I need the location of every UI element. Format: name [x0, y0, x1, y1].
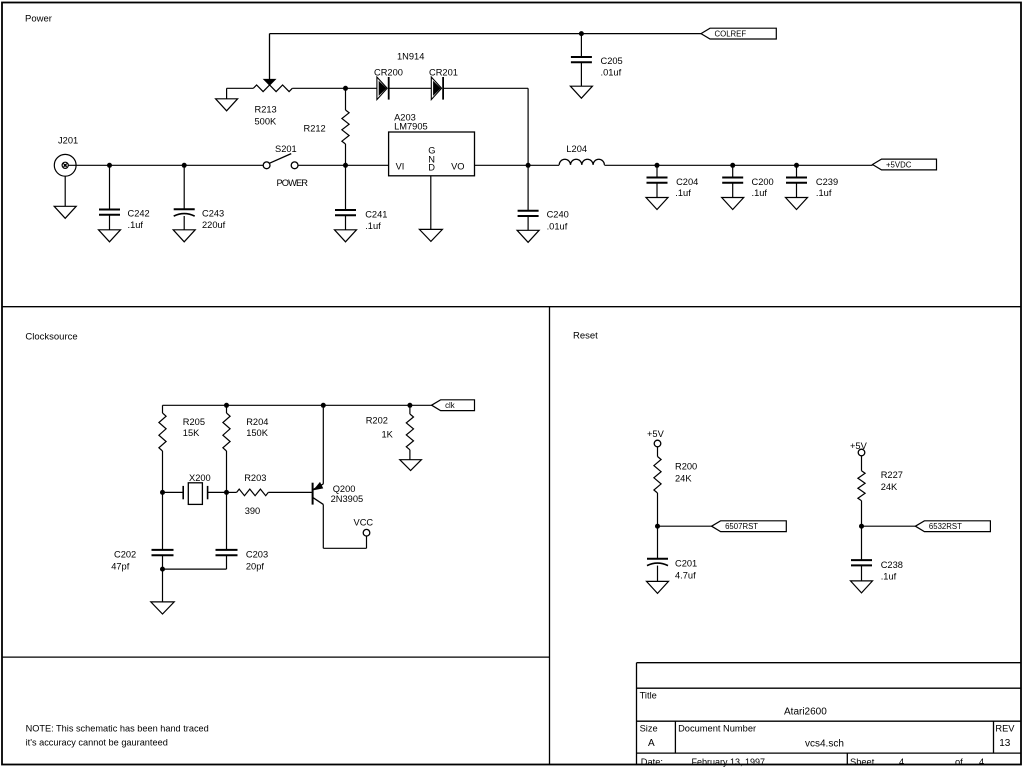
section divider clocksource bottom	[2, 656, 550, 658]
node C242 junction	[107, 163, 112, 168]
svg-text:NOTE: This schematic has been: NOTE: This schematic has been hand trace…	[26, 724, 209, 734]
svg-text:4: 4	[979, 757, 984, 767]
wire R213 left lead	[227, 88, 254, 99]
crystal X200	[183, 473, 211, 504]
svg-text:vcs4.sch: vcs4.sch	[805, 739, 844, 750]
wire J201 to ground	[64, 176, 66, 206]
resistor R202	[366, 405, 414, 459]
wire C243	[183, 165, 185, 209]
svg-text:CR200: CR200	[374, 68, 403, 78]
svg-text:Document Number: Document Number	[678, 724, 756, 734]
wire A203 VO to flag	[475, 164, 560, 166]
node 6507RST junction	[655, 524, 660, 529]
title block	[637, 663, 1022, 765]
svg-text:February 13, 1997: February 13, 1997	[692, 757, 766, 767]
svg-text:Q200: Q200	[333, 484, 356, 494]
section divider horizontal	[2, 306, 1021, 308]
svg-text:R205: R205	[183, 417, 205, 427]
title block text 13	[999, 738, 1011, 749]
ground J201	[54, 206, 76, 218]
svg-text:C200: C200	[752, 177, 774, 187]
svg-text:clk: clk	[445, 401, 455, 410]
ground C201	[647, 581, 669, 593]
svg-text:X200: X200	[189, 473, 211, 483]
section title Clocksource	[25, 332, 77, 343]
section title Reset	[573, 331, 598, 342]
node C239 junction	[794, 163, 799, 168]
capacitor C204	[647, 165, 699, 198]
svg-text:C238: C238	[881, 560, 903, 570]
svg-text:.1uf: .1uf	[752, 188, 768, 198]
svg-text:.1uf: .1uf	[816, 188, 832, 198]
resistor R227	[858, 456, 903, 526]
diode CR200	[374, 68, 403, 100]
wire C241 to ground	[345, 215, 347, 230]
title block text Document Number	[678, 724, 756, 734]
capacitor C238	[851, 526, 903, 581]
ground R202	[400, 460, 422, 471]
wire CR200 to CR201	[389, 87, 432, 89]
resistor R212	[304, 88, 350, 165]
wire C242	[109, 165, 111, 209]
node R202 junction	[407, 403, 412, 408]
svg-text:220uf: 220uf	[202, 220, 226, 230]
label 1N914	[397, 52, 424, 62]
ground C238	[851, 581, 873, 593]
ground C242	[99, 230, 121, 242]
svg-text:VCC: VCC	[354, 518, 374, 528]
title block text Size	[640, 724, 658, 734]
node crystal right junction	[224, 490, 229, 495]
capacitor C239	[786, 165, 838, 198]
svg-text:it's accuracy cannot be gauran: it's accuracy cannot be gauranteed	[26, 738, 168, 748]
svg-text:.1uf: .1uf	[881, 571, 897, 581]
svg-text:R212: R212	[304, 124, 326, 134]
wire C239 to ground	[796, 183, 798, 198]
switch S201	[263, 144, 308, 188]
ground C241	[335, 230, 357, 242]
ground C204	[646, 198, 668, 210]
svg-text:Date:: Date:	[641, 757, 663, 767]
node C205 junction	[579, 31, 584, 36]
svg-text:.1uf: .1uf	[675, 188, 691, 198]
svg-text:C203: C203	[246, 549, 268, 559]
ground A203	[419, 229, 442, 241]
svg-text:47pf: 47pf	[111, 562, 130, 572]
svg-text:+5VDC: +5VDC	[886, 160, 912, 169]
node R204 top junction	[224, 403, 229, 408]
node 6532RST junction	[859, 524, 864, 529]
node C200 junction	[730, 163, 735, 168]
ground C243	[173, 230, 195, 242]
svg-text:Atari2600: Atari2600	[784, 707, 827, 718]
wire COLREF net	[270, 33, 702, 35]
potentiometer R213	[253, 34, 292, 127]
title block text REV	[995, 724, 1015, 734]
flag clk	[432, 400, 475, 411]
ground C200	[722, 198, 744, 210]
flag +5VDC	[873, 159, 937, 170]
title block text of	[955, 757, 963, 767]
node crystal left junction	[160, 490, 165, 495]
ground C239	[786, 198, 808, 210]
svg-text:+5V: +5V	[647, 429, 665, 439]
svg-text:VI: VI	[396, 161, 405, 171]
wire A203 GND pin	[430, 176, 432, 230]
svg-text:1N914: 1N914	[397, 52, 424, 62]
node diode row junction	[343, 86, 348, 91]
wire C204 to ground	[656, 183, 658, 198]
node C240 junction	[526, 163, 531, 168]
svg-text:500K: 500K	[255, 117, 278, 127]
svg-text:20pf: 20pf	[246, 562, 265, 572]
svg-text:R203: R203	[244, 473, 266, 483]
svg-text:R202: R202	[366, 416, 388, 426]
diode CR201	[429, 68, 458, 100]
svg-text:.01uf: .01uf	[601, 68, 622, 78]
capacitor C241	[335, 165, 387, 231]
svg-text:1K: 1K	[382, 429, 394, 439]
title block text sheet number	[899, 757, 904, 767]
wire C240 to ground	[527, 216, 529, 230]
wire C201 to ground	[657, 566, 659, 582]
node C202 C203 junction	[160, 567, 165, 572]
svg-text:POWER: POWER	[277, 178, 309, 188]
wire C202 to junction	[162, 555, 164, 602]
wire R213 to junction	[292, 87, 377, 89]
svg-text:VO: VO	[451, 161, 464, 171]
wire C242 to ground	[109, 215, 111, 230]
ground R213	[216, 99, 238, 111]
wire crystal right lead	[208, 491, 227, 493]
title block text Title	[640, 691, 657, 701]
svg-text:C242: C242	[128, 209, 150, 219]
ground C240	[517, 230, 539, 242]
svg-text:C201: C201	[675, 558, 697, 568]
title block text total sheets	[979, 757, 984, 767]
capacitor C243	[174, 209, 226, 230]
wire C203 to junction	[163, 555, 227, 569]
ground clock	[151, 602, 174, 614]
svg-text:Size: Size	[640, 724, 658, 734]
svg-text:Title: Title	[640, 691, 657, 701]
wire C238 to ground	[861, 565, 863, 581]
regulator A203	[389, 113, 475, 176]
section title Power	[25, 14, 52, 25]
wire L204 to +5VDC flag	[604, 164, 872, 166]
wire J201 to S201	[68, 164, 263, 166]
flag 6532RST	[915, 521, 990, 532]
title block text date value	[692, 757, 766, 767]
svg-text:24K: 24K	[881, 482, 898, 492]
svg-text:C205: C205	[601, 56, 623, 66]
wire C202 branch	[162, 492, 164, 550]
wire Q200 emitter to rail	[322, 405, 324, 484]
wire C203 branch	[226, 492, 228, 550]
resistor R205	[159, 405, 205, 492]
wire clock top rail	[163, 404, 432, 406]
title block text Atari2600	[784, 707, 827, 718]
capacitor C240	[518, 165, 569, 231]
svg-text:of: of	[955, 757, 963, 767]
svg-text:C204: C204	[676, 177, 698, 187]
resistor R203	[227, 473, 312, 516]
wire crystal left lead	[163, 491, 184, 493]
capacitor C201	[647, 526, 697, 580]
svg-text:A: A	[648, 738, 655, 749]
svg-text:R213: R213	[255, 105, 277, 115]
transistor Q200	[313, 483, 364, 505]
svg-text:Clocksource: Clocksource	[25, 332, 77, 343]
wire Q200 collector to VCC	[323, 504, 366, 548]
capacitor C203	[216, 549, 269, 571]
wire C205	[580, 34, 582, 57]
terminal +5V left	[647, 429, 665, 447]
title block text A	[648, 738, 655, 749]
svg-text:C240: C240	[547, 210, 569, 220]
svg-text:.1uf: .1uf	[128, 220, 144, 230]
svg-text:S201: S201	[275, 144, 297, 154]
title block text Date	[641, 757, 663, 767]
wire C200 to ground	[732, 183, 734, 198]
flag COLREF	[701, 28, 776, 39]
wire to 6532RST flag	[862, 525, 916, 527]
svg-text:4: 4	[899, 757, 904, 767]
svg-text:24K: 24K	[675, 474, 692, 484]
wire C243 to ground	[183, 216, 185, 230]
wire CR201 to corner	[443, 88, 528, 165]
title block text vcs4.sch	[805, 739, 844, 750]
svg-text:13: 13	[999, 738, 1011, 749]
svg-text:C202: C202	[114, 549, 136, 559]
ground C205	[570, 86, 592, 98]
capacitor C200	[722, 165, 774, 198]
terminal VCC	[354, 518, 374, 537]
svg-text:.01uf: .01uf	[547, 221, 568, 231]
title block text Sheet	[850, 757, 875, 767]
svg-text:L204: L204	[566, 144, 587, 154]
svg-text:Reset: Reset	[573, 331, 598, 342]
resistor R204	[223, 405, 269, 492]
note text	[26, 724, 209, 748]
resistor R200	[654, 447, 697, 526]
svg-text:6532RST: 6532RST	[929, 522, 962, 531]
svg-text:Sheet: Sheet	[850, 757, 875, 767]
wire C205 to ground	[580, 62, 582, 86]
node R212 bottom junction	[343, 163, 348, 168]
svg-text:R204: R204	[246, 417, 268, 427]
wire to 6507RST flag	[658, 525, 712, 527]
svg-text:390: 390	[245, 506, 261, 516]
svg-text:Power: Power	[25, 14, 52, 25]
svg-text:2N3905: 2N3905	[331, 494, 364, 504]
node C243 junction	[182, 163, 187, 168]
section divider vertical	[549, 307, 551, 765]
svg-text:6507RST: 6507RST	[725, 522, 758, 531]
svg-text:R227: R227	[881, 470, 903, 480]
node C204 junction	[655, 163, 660, 168]
terminal +5V right	[850, 441, 868, 456]
svg-text:C239: C239	[816, 177, 838, 187]
svg-text:150K: 150K	[246, 428, 269, 438]
svg-text:C241: C241	[365, 209, 387, 219]
node Q200 rail junction	[321, 403, 326, 408]
svg-text:+5V: +5V	[850, 441, 868, 451]
capacitor C202	[111, 549, 173, 571]
wire S201 to A203 VI	[298, 164, 389, 166]
inductor L204	[559, 144, 604, 165]
svg-text:R200: R200	[675, 462, 697, 472]
svg-text:CR201: CR201	[429, 68, 458, 78]
svg-text:LM7905: LM7905	[394, 121, 428, 131]
svg-text:REV: REV	[995, 724, 1015, 734]
capacitor C205	[571, 56, 623, 78]
connector J201	[54, 136, 78, 177]
svg-text:COLREF: COLREF	[715, 30, 747, 39]
svg-text:D: D	[428, 162, 435, 172]
capacitor C242	[99, 209, 150, 230]
svg-text:.1uf: .1uf	[365, 221, 381, 231]
svg-text:C243: C243	[202, 209, 224, 219]
svg-text:4.7uf: 4.7uf	[675, 570, 696, 580]
svg-text:15K: 15K	[183, 428, 200, 438]
flag 6507RST	[712, 521, 787, 532]
svg-text:J201: J201	[58, 136, 78, 146]
